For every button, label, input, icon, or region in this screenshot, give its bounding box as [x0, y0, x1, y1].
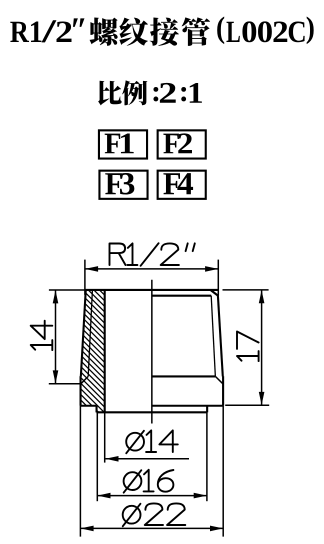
left flange bottom edge — [80, 405, 96, 407]
text 14 (rotated) — [31, 321, 53, 350]
box F2 — [158, 130, 206, 158]
dim ø14 dimension line — [105, 458, 189, 460]
right thread root slant — [211, 296, 215, 377]
box F1 — [99, 130, 147, 158]
text ø16 — [124, 470, 174, 493]
dim ø16 right extension line — [206, 412, 208, 501]
label F2 — [163, 133, 192, 153]
text ø14 — [126, 430, 178, 453]
dim ø22 right extension line — [222, 406, 224, 537]
thread chamfer circle line — [152, 295, 211, 297]
right spigot wall — [206, 406, 208, 413]
dim ø16 left arrow — [97, 493, 110, 499]
dim ø14 arrow — [105, 456, 118, 462]
label F1 — [105, 133, 134, 153]
dim 14 top extension line — [49, 289, 86, 291]
dim 14 top arrow — [53, 290, 59, 303]
text 17 (rotated) — [237, 332, 259, 362]
dim 17 dimension line — [261, 290, 263, 405]
text R1/2" — [110, 243, 195, 266]
top face edge — [85, 289, 218, 291]
box F4 — [158, 171, 206, 199]
box F3 — [99, 171, 147, 199]
bore wall (section, left) — [104, 290, 106, 413]
left spigot wall — [96, 406, 98, 413]
left thread runout diagonal — [81, 376, 88, 383]
left thread crest slant — [81, 290, 86, 376]
R1/2 right extension line — [217, 260, 219, 296]
left flange edge — [80, 376, 82, 406]
label F3 — [105, 173, 134, 195]
right chamfer diagonal — [210, 290, 218, 296]
right thread crest slant — [218, 296, 223, 377]
right flange edge — [222, 376, 224, 406]
R1/2 dimension line — [85, 268, 218, 270]
left thread root slant — [88, 290, 92, 376]
label F4 — [163, 173, 193, 194]
dim 17 top arrow — [259, 290, 265, 303]
dim ø16 left extension line — [96, 412, 98, 501]
dim ø14 extension line (bore wall extended) — [104, 412, 106, 462]
dim ø22 right arrow — [210, 526, 223, 532]
bottom face edge — [96, 411, 207, 413]
dim 14 dimension line — [55, 290, 57, 384]
dim 14 bottom extension line — [49, 383, 81, 385]
scale label: 比例:2:1 — [98, 80, 202, 105]
R1/2 left extension line — [84, 260, 86, 295]
dim 17 bottom arrow — [259, 392, 265, 405]
dim ø22 left extension line — [79, 406, 81, 537]
title text: R1/2"螺纹接管(L002C) — [10, 17, 313, 46]
R1/2 right arrow — [205, 266, 218, 272]
dim ø22 left arrow — [80, 526, 93, 532]
R1/2 left arrow — [85, 266, 98, 272]
thread runout line — [152, 375, 216, 377]
dim 17 bottom extension line — [225, 404, 269, 406]
right thread runout diagonal — [215, 376, 223, 383]
dim ø16 right arrow — [194, 493, 207, 499]
dim ø22 dimension line — [80, 527, 223, 529]
dim ø16 dimension line — [97, 495, 207, 497]
dim 14 bottom arrow — [53, 370, 59, 383]
text ø22 — [123, 503, 186, 526]
dim 17 top extension line — [223, 289, 269, 291]
right flange bottom edge — [152, 405, 223, 407]
centerline axis — [151, 280, 153, 424]
